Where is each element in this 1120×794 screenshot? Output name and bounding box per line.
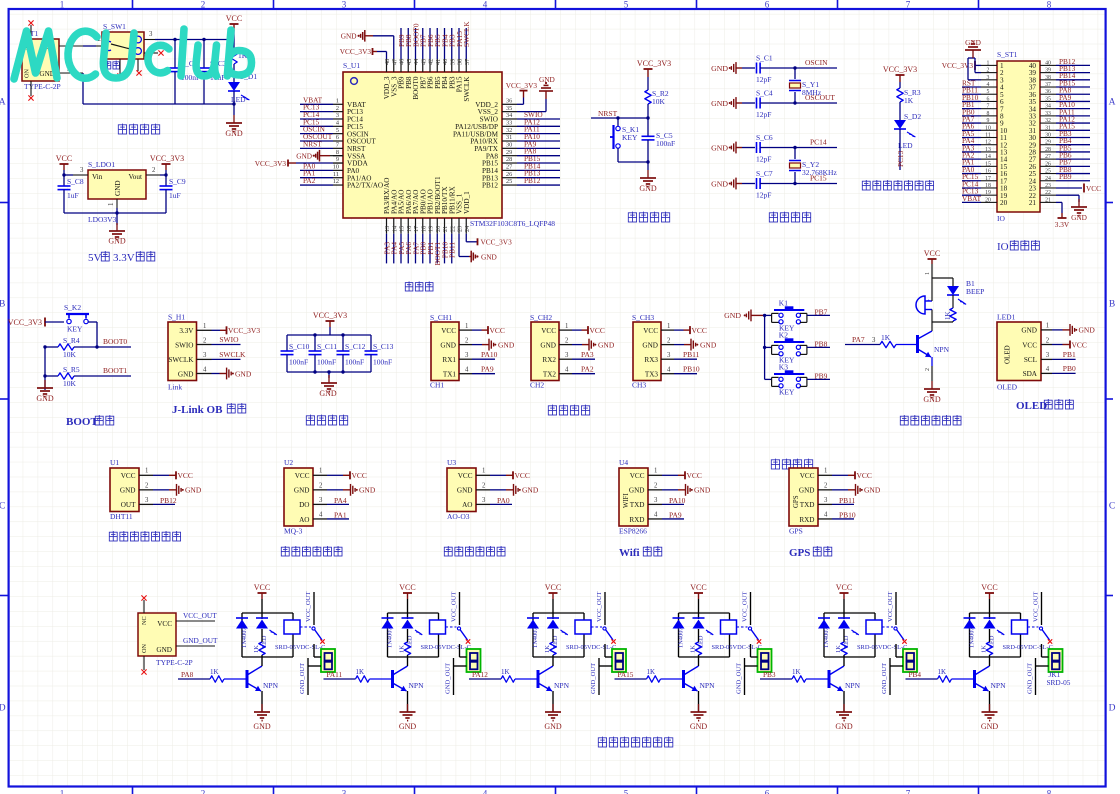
ground GND at U1 VSS_1 bbox=[458, 234, 460, 257]
svg-text:17: 17 bbox=[985, 176, 991, 182]
pin U1.2 PC13 bbox=[333, 111, 343, 113]
net label OSCOUT bbox=[300, 140, 333, 142]
svg-text:1: 1 bbox=[108, 203, 115, 206]
pin U2.3 DO bbox=[313, 503, 327, 505]
pin ST1.28 bbox=[1040, 151, 1056, 153]
switch S_SW1 bbox=[102, 32, 144, 59]
svg-text:14: 14 bbox=[985, 154, 991, 160]
net label PC13 bbox=[962, 194, 981, 196]
svg-text:25: 25 bbox=[1045, 169, 1051, 175]
svg-text:VCC_3V3: VCC_3V3 bbox=[8, 318, 42, 327]
resistor 1K base bbox=[792, 676, 806, 682]
svg-text:VCC_3V3: VCC_3V3 bbox=[313, 311, 347, 320]
pin U1.30 PA9/TX bbox=[502, 147, 517, 149]
svg-text:U5: U5 bbox=[789, 458, 798, 467]
svg-text:1K: 1K bbox=[904, 96, 914, 105]
wire bottom rail bbox=[287, 371, 371, 373]
svg-text:21: 21 bbox=[1029, 199, 1037, 207]
svg-text:PA2/TX/AO: PA2/TX/AO bbox=[347, 182, 383, 190]
net label PB0 bbox=[962, 115, 981, 117]
LED indicator bbox=[843, 613, 845, 619]
net label PB0 bbox=[1052, 372, 1076, 374]
svg-text:41: 41 bbox=[435, 59, 442, 65]
svg-text:PB9: PB9 bbox=[1059, 172, 1072, 181]
svg-text:10K: 10K bbox=[652, 97, 666, 106]
svg-text:VCC_OUT: VCC_OUT bbox=[742, 592, 749, 622]
svg-text:RX3: RX3 bbox=[644, 356, 658, 364]
ground GND bbox=[261, 704, 263, 712]
net label OSCIN bbox=[300, 133, 333, 135]
title temperature-humidity module bbox=[109, 531, 117, 541]
pin U1.1 VBAT bbox=[333, 103, 343, 105]
svg-text:VCC_OUT: VCC_OUT bbox=[451, 592, 458, 622]
pin U2.2 GND bbox=[313, 489, 327, 491]
pin U1.48 VDD_3 bbox=[386, 59, 388, 72]
push button S_K2 KEY bbox=[66, 313, 89, 315]
svg-text:PB10: PB10 bbox=[683, 365, 700, 374]
svg-text:4: 4 bbox=[824, 511, 828, 518]
svg-text:VCC: VCC bbox=[800, 472, 815, 480]
svg-text:2: 2 bbox=[925, 368, 931, 371]
pin U1.26 PB13 bbox=[502, 177, 517, 179]
svg-text:1: 1 bbox=[60, 789, 65, 794]
svg-text:TXD: TXD bbox=[630, 501, 645, 509]
net label VBAT bbox=[300, 103, 333, 105]
pin U1.4 PC15 bbox=[333, 125, 343, 127]
svg-text:1: 1 bbox=[482, 468, 485, 475]
svg-text:S_R5: S_R5 bbox=[63, 365, 80, 374]
svg-text:3: 3 bbox=[342, 0, 347, 10]
pin ST1.30 bbox=[1040, 137, 1056, 139]
svg-text:33: 33 bbox=[1045, 111, 1051, 117]
svg-text:34: 34 bbox=[506, 112, 513, 119]
svg-text:27: 27 bbox=[506, 164, 512, 171]
power VCC at LED1.2 bbox=[1052, 344, 1063, 346]
pin S_CH1.2 GND bbox=[459, 344, 472, 346]
net label PA12 bbox=[1056, 122, 1090, 124]
net label PA6 bbox=[407, 234, 409, 264]
svg-text:VCC: VCC bbox=[690, 583, 706, 592]
pin ST1.19 bbox=[981, 194, 997, 196]
svg-text:2: 2 bbox=[336, 105, 339, 112]
title crystal circuit bbox=[769, 212, 777, 222]
wire contact to terminal bbox=[604, 644, 606, 657]
net GND_OUT vertical bbox=[744, 658, 746, 695]
pin ST1.12 bbox=[981, 144, 997, 146]
svg-text:NPN: NPN bbox=[934, 345, 950, 354]
svg-text:12pF: 12pF bbox=[756, 191, 771, 200]
pin S_CH3.1 VCC bbox=[661, 329, 674, 331]
diode 1N4007 bbox=[964, 620, 976, 629]
pin ST1.4 bbox=[981, 86, 997, 88]
net GND_OUT vertical bbox=[1035, 658, 1037, 695]
svg-text:GND: GND bbox=[711, 143, 728, 152]
wire key to BOOT0 node bbox=[88, 321, 97, 323]
net label PA10 bbox=[517, 140, 560, 142]
net label VBAT bbox=[962, 201, 981, 203]
svg-text:GND: GND bbox=[711, 64, 728, 73]
svg-text:B: B bbox=[0, 300, 5, 310]
svg-text:B: B bbox=[1109, 300, 1115, 310]
svg-text:GND: GND bbox=[690, 722, 708, 731]
pin U1.13 PA3/RX/AO bbox=[386, 218, 388, 234]
svg-text:1: 1 bbox=[465, 323, 468, 330]
svg-text:GND_OUT: GND_OUT bbox=[590, 663, 597, 694]
wire relay frame bbox=[824, 612, 875, 614]
pin S_CH2.2 GND bbox=[559, 344, 572, 346]
svg-text:SRD-05VDC-SL-C: SRD-05VDC-SL-C bbox=[712, 644, 762, 651]
svg-text:42: 42 bbox=[428, 59, 435, 65]
svg-text:U4: U4 bbox=[619, 458, 628, 467]
svg-text:S_C1: S_C1 bbox=[756, 54, 773, 63]
svg-text:19: 19 bbox=[428, 226, 435, 232]
svg-text:5: 5 bbox=[336, 127, 339, 134]
net label SWIO bbox=[517, 118, 560, 120]
svg-text:NPN: NPN bbox=[991, 681, 1007, 690]
transistor NPN bbox=[828, 670, 831, 688]
wire to net OSCOUT bbox=[760, 102, 837, 104]
svg-text:PA2: PA2 bbox=[581, 365, 594, 374]
svg-text:GND_OUT: GND_OUT bbox=[881, 663, 888, 694]
net label PB0 bbox=[422, 234, 424, 264]
svg-text:6: 6 bbox=[336, 134, 339, 141]
svg-text:20: 20 bbox=[435, 226, 442, 232]
svg-text:NPN: NPN bbox=[263, 681, 279, 690]
svg-text:PB4: PB4 bbox=[909, 670, 922, 679]
pin ST1.22 bbox=[1040, 194, 1056, 196]
svg-text:S_C8: S_C8 bbox=[67, 177, 84, 186]
terminal block bbox=[321, 649, 335, 672]
capacitor S_C11 100nF bbox=[314, 335, 316, 351]
svg-text:VCC: VCC bbox=[1022, 341, 1037, 349]
ground GND at LED1.1 bbox=[1052, 329, 1063, 331]
pin U1.11 PA1/AO bbox=[333, 177, 343, 179]
svg-text:DHT11: DHT11 bbox=[110, 512, 133, 521]
svg-text:3: 3 bbox=[149, 31, 153, 38]
resistor 1K base bbox=[356, 676, 370, 682]
svg-text:4: 4 bbox=[1046, 366, 1050, 373]
svg-text:TX1: TX1 bbox=[443, 371, 457, 379]
svg-text:GND: GND bbox=[498, 340, 515, 349]
relay coil SRD-05VDC-SL-C bbox=[721, 620, 737, 634]
svg-text:VCC: VCC bbox=[458, 472, 473, 480]
transistor NPN bbox=[246, 670, 249, 688]
svg-text:ESP8266: ESP8266 bbox=[619, 527, 647, 536]
crystal S_Y1 8MHz bbox=[793, 66, 796, 69]
svg-text:GND: GND bbox=[694, 486, 711, 495]
net label PB3 bbox=[760, 678, 792, 680]
svg-text:46: 46 bbox=[399, 59, 406, 65]
svg-text:GND_OUT: GND_OUT bbox=[1027, 663, 1034, 694]
svg-text:1: 1 bbox=[319, 468, 322, 475]
pin ST1.11 bbox=[981, 137, 997, 139]
svg-text:2: 2 bbox=[465, 337, 469, 344]
svg-text:100nF: 100nF bbox=[373, 358, 392, 367]
svg-text:MQ-3: MQ-3 bbox=[284, 527, 303, 536]
svg-text:PC14: PC14 bbox=[810, 138, 827, 147]
svg-text:39: 39 bbox=[449, 59, 456, 65]
svg-text:1K: 1K bbox=[210, 668, 219, 676]
svg-text:SRD-05: SRD-05 bbox=[1047, 678, 1071, 687]
net label PB13 bbox=[1056, 72, 1090, 74]
pin S_LDO1.1 GND bbox=[116, 199, 118, 208]
pin LED1.1 GND bbox=[1041, 329, 1052, 331]
wire contact to terminal bbox=[895, 644, 897, 657]
svg-text:15: 15 bbox=[399, 226, 406, 232]
relay contact bbox=[737, 626, 748, 628]
net label PB1 bbox=[429, 234, 431, 264]
svg-text:VCC: VCC bbox=[545, 583, 561, 592]
svg-text:3.3V: 3.3V bbox=[1055, 220, 1070, 229]
svg-text:29: 29 bbox=[1045, 140, 1051, 146]
pin U1.34 SWIO bbox=[502, 118, 517, 120]
net label PB10 bbox=[832, 518, 854, 520]
svg-text:PB7: PB7 bbox=[815, 307, 828, 316]
pin ST1.32 bbox=[1040, 122, 1056, 124]
net label PB1 bbox=[962, 108, 981, 110]
net label PB9 bbox=[400, 28, 402, 59]
pin ST1.26 bbox=[1040, 165, 1056, 167]
svg-text:VCC_OUT: VCC_OUT bbox=[183, 611, 217, 620]
svg-text:GND_OUT: GND_OUT bbox=[299, 663, 306, 694]
svg-text:VCC_3V3: VCC_3V3 bbox=[340, 47, 372, 56]
pin ST1.33 bbox=[1040, 115, 1056, 117]
svg-text:11: 11 bbox=[333, 171, 339, 178]
ground GND at U1.2 bbox=[153, 489, 169, 491]
svg-text:PA10: PA10 bbox=[481, 350, 498, 359]
pin U1.3 PC14 bbox=[333, 118, 343, 120]
svg-text:GND: GND bbox=[981, 722, 999, 731]
wire to ground bbox=[328, 372, 330, 378]
svg-text:PB8: PB8 bbox=[815, 339, 828, 348]
svg-text:NPN: NPN bbox=[700, 681, 716, 690]
svg-text:37: 37 bbox=[1045, 82, 1051, 88]
svg-text:S_C9: S_C9 bbox=[169, 177, 186, 186]
svg-text:S_C4: S_C4 bbox=[756, 89, 773, 98]
pin U1.36 VDD_2 bbox=[502, 103, 517, 105]
ruler ticks top and bottom bbox=[132, 0, 134, 9]
pin U1.28 PB15 bbox=[502, 162, 517, 164]
svg-text:IO: IO bbox=[997, 214, 1005, 223]
svg-text:OLED: OLED bbox=[997, 383, 1018, 392]
svg-text:VCC: VCC bbox=[981, 583, 997, 592]
svg-text:47: 47 bbox=[391, 59, 398, 65]
svg-text:7: 7 bbox=[906, 0, 911, 10]
pin S_T1 bottom no-connect bbox=[30, 81, 32, 96]
svg-text:VCC_3V3: VCC_3V3 bbox=[481, 238, 513, 247]
svg-text:PB11: PB11 bbox=[448, 242, 457, 258]
ground GND at S_CH1.2 bbox=[472, 344, 482, 346]
svg-text:PB0: PB0 bbox=[1063, 364, 1076, 373]
net label PB5 bbox=[1056, 151, 1090, 153]
svg-text:KEY: KEY bbox=[779, 388, 795, 397]
svg-text:SRD-05VDC-SL-C: SRD-05VDC-SL-C bbox=[275, 644, 325, 651]
net label PB8 bbox=[407, 28, 409, 59]
power VCC at S_CH1.1 bbox=[472, 329, 482, 331]
pin bottom no-connect bbox=[143, 656, 145, 670]
svg-text:VCC: VCC bbox=[687, 471, 702, 480]
pin U1.32 PA11/USB/DM bbox=[502, 133, 517, 135]
wire to net PC15 bbox=[760, 183, 837, 185]
module U4 ESP8266 body bbox=[619, 468, 648, 526]
terminal block bbox=[467, 649, 481, 672]
net label PB9 bbox=[1056, 180, 1090, 182]
svg-text:12: 12 bbox=[333, 178, 339, 185]
svg-text:20: 20 bbox=[985, 197, 991, 203]
net label PB11 bbox=[962, 93, 981, 95]
pin U1.25 PB12 bbox=[502, 184, 517, 186]
svg-text:U2: U2 bbox=[284, 458, 293, 467]
svg-text:5: 5 bbox=[624, 789, 629, 794]
pin ST1.20 bbox=[981, 201, 997, 203]
diode 1N4007 bbox=[382, 620, 394, 629]
pin ST1.5 bbox=[981, 93, 997, 95]
wire contact to terminal bbox=[313, 644, 315, 657]
net label PB7 bbox=[422, 28, 424, 59]
ground GND at S_CH3.2 bbox=[674, 344, 684, 346]
net label PA2 bbox=[572, 373, 595, 375]
net label PB4 bbox=[906, 678, 938, 680]
svg-text:1N4007: 1N4007 bbox=[678, 627, 685, 648]
svg-text:30: 30 bbox=[1045, 133, 1051, 139]
ground GND bbox=[233, 115, 235, 123]
svg-text:2: 2 bbox=[654, 482, 658, 489]
svg-text:U1: U1 bbox=[110, 458, 119, 467]
pin ST1.23 bbox=[1040, 187, 1056, 189]
pin S_CH1.4 TX1 bbox=[459, 373, 472, 375]
svg-text:20: 20 bbox=[1000, 199, 1008, 207]
net label PB3 bbox=[451, 28, 453, 59]
title key circuit bbox=[771, 459, 779, 469]
svg-text:1: 1 bbox=[987, 60, 990, 66]
net label BOOT0 bbox=[415, 28, 417, 59]
svg-text:RX2: RX2 bbox=[542, 356, 556, 364]
pin U1.47 VSS_3 bbox=[393, 59, 395, 72]
svg-text:24: 24 bbox=[1045, 176, 1051, 182]
resistor 1K bbox=[261, 629, 263, 642]
resistor 1K bbox=[989, 629, 991, 642]
net label PA4 bbox=[393, 234, 395, 264]
svg-text:PB12: PB12 bbox=[524, 176, 541, 185]
svg-text:32.768KHz: 32.768KHz bbox=[802, 168, 837, 177]
svg-text:A: A bbox=[0, 98, 6, 108]
ground GND at H1.4 bbox=[212, 373, 220, 375]
svg-text:TXD: TXD bbox=[800, 501, 815, 509]
net label PA1 bbox=[962, 165, 981, 167]
net GND_OUT vertical bbox=[453, 658, 455, 695]
svg-text:PA4: PA4 bbox=[334, 496, 347, 505]
pin ST1.29 bbox=[1040, 144, 1056, 146]
net label SWCLK bbox=[212, 358, 241, 360]
pin S_CH2.3 RX2 bbox=[559, 358, 572, 360]
svg-text:NPN: NPN bbox=[554, 681, 570, 690]
wire to net PB7 bbox=[807, 314, 830, 316]
svg-text:GND: GND bbox=[225, 129, 243, 138]
svg-text:VCC: VCC bbox=[226, 14, 242, 23]
net label PB14 bbox=[517, 169, 560, 171]
net label PA10 bbox=[662, 503, 684, 505]
pin U2.4 AO bbox=[313, 518, 327, 520]
svg-text:PB3: PB3 bbox=[763, 670, 776, 679]
pin U1.44 BOOT0 bbox=[415, 59, 417, 72]
power VCC_3V3 at U1 VDD_2 bbox=[517, 103, 524, 105]
svg-text:27: 27 bbox=[1045, 154, 1051, 160]
pin U1.12 PA2/TX/AO bbox=[333, 184, 343, 186]
wire Vout to VCC_3V3 bbox=[160, 174, 166, 176]
svg-text:6: 6 bbox=[987, 96, 990, 102]
resistor 1K bbox=[552, 629, 554, 642]
svg-text:S_C13: S_C13 bbox=[373, 342, 394, 351]
svg-text:18: 18 bbox=[985, 183, 991, 189]
svg-text:TYPE-C-2P: TYPE-C-2P bbox=[24, 82, 61, 91]
module U5 GPS body bbox=[789, 468, 818, 526]
pin U1.23 VSS_1 bbox=[458, 218, 460, 234]
net label PB6 bbox=[429, 28, 431, 59]
pin S_LDO1.2 Vout bbox=[146, 174, 160, 176]
svg-text:GND: GND bbox=[864, 486, 881, 495]
LED indicator bbox=[261, 613, 263, 619]
svg-text:4: 4 bbox=[465, 367, 469, 374]
pin ST1.34 bbox=[1040, 108, 1056, 110]
pin LED1.3 SCL bbox=[1041, 358, 1052, 360]
wire relay frame bbox=[970, 612, 1021, 614]
svg-text:12pF: 12pF bbox=[756, 110, 771, 119]
title alcohol detect module bbox=[281, 546, 289, 556]
net label PB4 bbox=[1056, 144, 1090, 146]
svg-text:DO: DO bbox=[299, 501, 309, 509]
svg-text:C: C bbox=[1109, 502, 1115, 512]
svg-text:PA15: PA15 bbox=[618, 670, 634, 679]
svg-text:CH3: CH3 bbox=[632, 381, 646, 390]
net label PA12 bbox=[469, 678, 501, 680]
svg-text:S_C6: S_C6 bbox=[756, 133, 773, 142]
svg-text:OLED: OLED bbox=[1004, 345, 1012, 364]
svg-text:S_C12: S_C12 bbox=[345, 342, 366, 351]
LED branch bbox=[952, 278, 954, 286]
svg-text:SWCLK: SWCLK bbox=[463, 76, 471, 102]
net label GND_OUT bbox=[176, 645, 215, 647]
svg-text:3.3V: 3.3V bbox=[179, 327, 194, 335]
diode 1N4007 bbox=[236, 620, 248, 629]
svg-text:OSCIN: OSCIN bbox=[805, 58, 828, 67]
svg-text:PB12: PB12 bbox=[160, 496, 177, 505]
pin U4.3 TXD bbox=[648, 503, 662, 505]
wire contact to terminal bbox=[1041, 644, 1043, 657]
pin H1.1 3.3V bbox=[197, 329, 212, 331]
svg-text:D: D bbox=[0, 704, 6, 714]
main MCU S_U1 STM32F103C8T6 body bbox=[343, 72, 502, 218]
svg-text:VCC: VCC bbox=[590, 326, 605, 335]
svg-text:3: 3 bbox=[872, 337, 876, 344]
relay coil SRD-05VDC-SL-C bbox=[575, 620, 591, 634]
pin U1.29 PA8 bbox=[502, 155, 517, 157]
net label PB7 bbox=[1056, 165, 1090, 167]
svg-text:GND: GND bbox=[235, 369, 252, 378]
pin ST1.3 bbox=[981, 79, 997, 81]
net label BOOT1 bbox=[436, 234, 438, 264]
svg-text:1: 1 bbox=[654, 468, 657, 475]
svg-text:RXD: RXD bbox=[799, 516, 814, 524]
svg-text:S_U1: S_U1 bbox=[343, 61, 360, 70]
pin ST1.24 bbox=[1040, 180, 1056, 182]
LED indicator bbox=[407, 613, 409, 619]
resistor S_R1 1K bbox=[233, 40, 235, 49]
svg-text:SRD-05VDC-SL-C: SRD-05VDC-SL-C bbox=[857, 644, 907, 651]
svg-text:6: 6 bbox=[765, 789, 770, 794]
net label PA0 bbox=[490, 503, 512, 505]
connector S_CH3 serial header bbox=[633, 322, 661, 381]
svg-text:12: 12 bbox=[985, 140, 991, 146]
